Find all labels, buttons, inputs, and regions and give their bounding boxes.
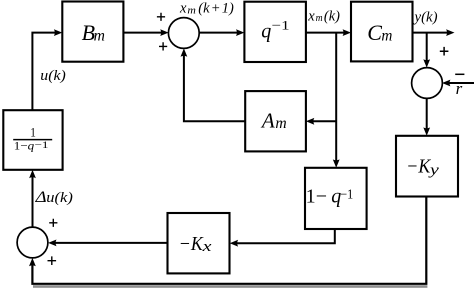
wire 1-q^-1 output down then left into -Kx — [234, 229, 335, 243]
plus sign S3 lower-right — [48, 256, 57, 265]
plus sign S1 lower-left — [159, 42, 167, 50]
block q^-1 (delay) — [244, 2, 306, 62]
minus sign S2 — [455, 73, 464, 75]
wire u(k): from integrator top, up then right into Bm — [32, 33, 58, 111]
svg-text:−1: −1 — [35, 141, 49, 151]
plus sign S2 — [440, 47, 449, 56]
svg-text:m: m — [316, 12, 323, 24]
svg-text:m: m — [94, 28, 105, 45]
wire q^-1 to Cm — [306, 32, 347, 34]
svg-text:(k): (k) — [324, 8, 340, 24]
svg-text:x: x — [201, 239, 212, 255]
svg-text:x: x — [179, 1, 187, 17]
svg-text:m: m — [381, 27, 392, 44]
svg-text:q: q — [261, 21, 271, 43]
svg-text:−1: −1 — [272, 18, 290, 33]
wire Cm output y(k) — [413, 32, 451, 34]
svg-text:1: 1 — [306, 185, 316, 207]
svg-text:u(k): u(k) — [40, 68, 66, 84]
svg-text:m: m — [275, 115, 286, 132]
svg-text:A: A — [260, 108, 275, 132]
svg-text:x: x — [307, 8, 315, 24]
block 1-q^-1 (difference) — [305, 168, 367, 229]
svg-text:y: y — [427, 162, 439, 178]
svg-text:−1: −1 — [340, 186, 353, 201]
wire r input — [446, 82, 474, 84]
block Am — [245, 91, 306, 151]
summing junction S3 (bottom-left) — [17, 227, 48, 258]
wire S3 up into integrator — [32, 174, 34, 227]
svg-text:−K: −K — [179, 233, 204, 255]
wire S1 to q^-1 — [199, 32, 240, 34]
svg-text:r: r — [456, 79, 463, 98]
block -Kx — [168, 213, 230, 273]
svg-text:u(k): u(k) — [46, 190, 73, 206]
wire branch left into Am — [310, 120, 336, 122]
svg-text:−K: −K — [406, 155, 431, 177]
svg-text:1−q: 1−q — [14, 139, 34, 153]
wire Am output to S1 bottom — [184, 53, 245, 122]
svg-text:1: 1 — [30, 124, 36, 139]
plus sign S1 upper-left — [157, 13, 165, 21]
block Cm — [351, 2, 413, 62]
block Bm — [62, 2, 123, 62]
svg-text:m: m — [187, 4, 196, 16]
svg-text:(k + 1): (k + 1) — [198, 1, 234, 17]
wire Bm to S1 — [123, 32, 164, 34]
wire -Ky down, along bottom, up into S3 — [32, 197, 426, 284]
wire branch xm(k) down into 1-q^-1 — [335, 33, 337, 164]
wire S2 down into -Ky — [426, 98, 428, 131]
svg-text:y(k): y(k) — [412, 10, 437, 26]
summing junction S1 (top) — [168, 18, 199, 49]
wire branch down into S2 — [426, 33, 428, 64]
block -Ky — [396, 136, 458, 197]
block 1/(1-q^-1) (integrator) — [3, 110, 62, 170]
svg-text:−: − — [316, 185, 327, 207]
wire -Kx output left into S3 — [52, 242, 167, 244]
summing junction S2 (y minus r) — [412, 68, 443, 99]
svg-text:C: C — [367, 20, 382, 45]
svg-text:Δ: Δ — [34, 189, 46, 206]
plus sign S3 upper-right — [49, 219, 57, 227]
gray shadow under bottom wire — [33, 285, 427, 288]
